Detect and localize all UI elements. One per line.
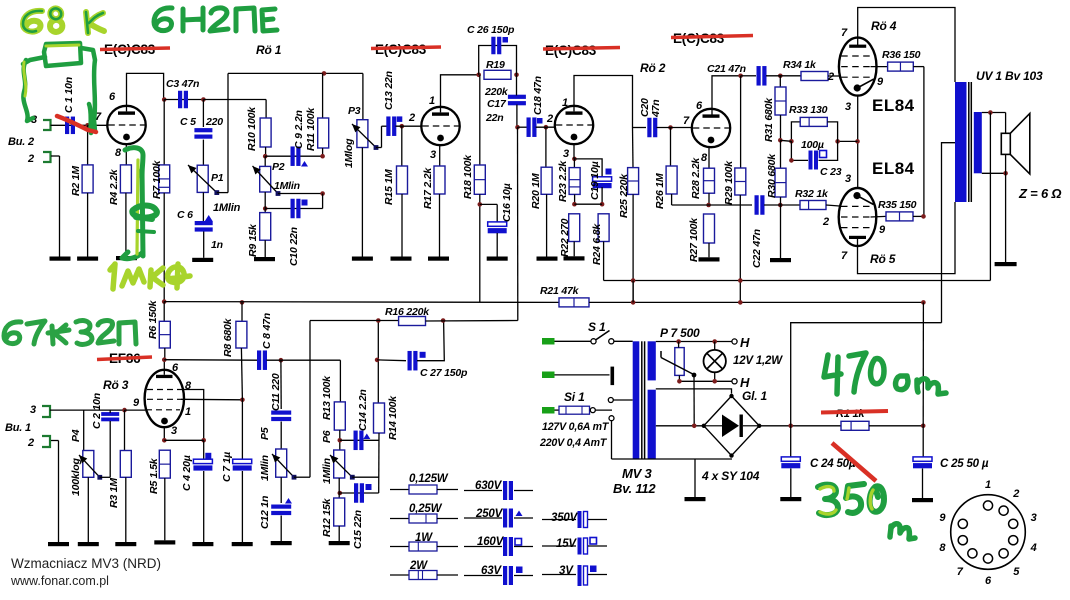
- legend 2W: [390, 560, 458, 580]
- capacitor C25: [913, 426, 989, 498]
- wire: [913, 215, 924, 217]
- resistor R7: [151, 100, 170, 302]
- svg-text:Wzmacniacz MV3 (NRD): Wzmacniacz MV3 (NRD): [11, 556, 161, 571]
- resistor R4: [108, 144, 131, 256]
- ground: [271, 541, 292, 545]
- wire: [869, 425, 923, 427]
- contact plate: [611, 367, 615, 386]
- resistor R30: [766, 140, 786, 258]
- transformer MV3 primary: [633, 341, 640, 459]
- wire transformer bottom: [612, 458, 733, 460]
- wiper P5: [272, 454, 294, 477]
- svg-text:2: 2: [1012, 488, 1019, 500]
- svg-text:2: 2: [27, 153, 34, 165]
- potentiometer P1: [197, 140, 224, 193]
- resistor R25: [618, 128, 639, 303]
- fuse Si1: [559, 390, 590, 414]
- wire AC2: [656, 425, 704, 427]
- wire heater top: [656, 341, 733, 343]
- potentiometer P4: [70, 410, 94, 542]
- svg-text:R9 15k: R9 15k: [247, 223, 259, 257]
- svg-text:C 5: C 5: [180, 116, 196, 128]
- legend 0.25W: [390, 503, 458, 523]
- svg-text:Rö 5: Rö 5: [870, 252, 896, 266]
- wire: [426, 320, 518, 323]
- resistor R36: [882, 49, 921, 71]
- svg-text:R2 1M: R2 1M: [70, 166, 82, 196]
- capacitor C11: [270, 360, 291, 449]
- wire anode V3: [858, 8, 955, 83]
- wire anode V1a: [127, 73, 164, 111]
- svg-text:R22 270: R22 270: [559, 218, 571, 257]
- svg-text:R14 100k: R14 100k: [387, 395, 399, 440]
- svg-text:R18 100k: R18 100k: [462, 154, 474, 199]
- svg-text:C16 10µ: C16 10µ: [501, 183, 513, 222]
- svg-text:R35 150: R35 150: [878, 199, 917, 211]
- connector mains c: [542, 407, 555, 414]
- node: [789, 139, 794, 144]
- terminal H lower: [732, 379, 737, 384]
- capacitor C15: [352, 483, 372, 549]
- node: [514, 73, 519, 78]
- svg-text:R7 100k: R7 100k: [151, 159, 163, 199]
- node: [835, 139, 840, 144]
- svg-text:R32 1k: R32 1k: [795, 188, 829, 200]
- svg-text:Bu. 2: Bu. 2: [8, 136, 34, 148]
- svg-text:Z = 6 Ω: Z = 6 Ω: [1018, 186, 1061, 201]
- node supply: [162, 299, 167, 304]
- svg-text:47n: 47n: [650, 100, 662, 119]
- svg-text:R21 47k: R21 47k: [540, 285, 580, 297]
- ground: [699, 257, 720, 261]
- ground: [77, 257, 98, 261]
- ground: [487, 257, 508, 261]
- node: [476, 73, 481, 78]
- svg-text:R25 220k: R25 220k: [618, 173, 630, 218]
- svg-text:22n: 22n: [485, 112, 504, 124]
- svg-text:3: 3: [845, 173, 851, 185]
- wire: [741, 75, 756, 77]
- svg-text:R19: R19: [486, 59, 505, 71]
- capacitor C24: [781, 426, 856, 497]
- resistor R31: [763, 76, 786, 142]
- svg-text:1: 1: [185, 406, 191, 418]
- legend 0.125W: [390, 473, 458, 494]
- potentiometer P5: [259, 449, 287, 481]
- svg-text:3: 3: [563, 148, 569, 160]
- wire: [1005, 154, 1007, 262]
- svg-text:3V: 3V: [559, 565, 574, 577]
- capacitor C16: [480, 183, 513, 256]
- resistor R16: [385, 306, 430, 326]
- wire input: [50, 409, 125, 411]
- svg-text:2: 2: [822, 216, 829, 228]
- node: [692, 424, 697, 429]
- wire anode V2a: [574, 76, 633, 128]
- ground: [48, 542, 69, 546]
- wire: [267, 359, 341, 361]
- svg-text:C10 22n: C10 22n: [288, 227, 300, 266]
- svg-text:Rö 1: Rö 1: [256, 43, 282, 57]
- svg-text:C21 47n: C21 47n: [707, 63, 746, 75]
- ground: [428, 257, 449, 261]
- tube V1a Roe1: [107, 106, 145, 144]
- resistor R27: [688, 214, 715, 262]
- connector mains b: [542, 372, 555, 379]
- annotation 67k32P: [4, 321, 136, 345]
- speaker: [1001, 133, 1010, 154]
- transformer UV1 secondary: [974, 112, 982, 173]
- node: [338, 491, 343, 496]
- wire cathode V5: [163, 427, 165, 440]
- wire: [51, 440, 59, 442]
- resistor R24: [591, 214, 609, 281]
- wire: [417, 321, 444, 361]
- wire: [555, 340, 593, 342]
- wire: [693, 375, 695, 426]
- svg-text:1Mlin: 1Mlin: [213, 202, 241, 214]
- wire R16 bus: [310, 320, 399, 322]
- resistor R18: [462, 75, 485, 303]
- wire: [264, 192, 266, 213]
- svg-text:C12 1n: C12 1n: [259, 496, 271, 529]
- wire: [766, 75, 801, 77]
- svg-text:0,25W: 0,25W: [409, 503, 443, 515]
- svg-text:4: 4: [1030, 542, 1037, 554]
- node: [706, 203, 711, 208]
- resistor R22: [559, 214, 580, 257]
- resistor R21: [540, 285, 589, 307]
- svg-text:R4 2.2k: R4 2.2k: [108, 168, 120, 205]
- svg-text:350V: 350V: [551, 512, 579, 524]
- wire: [377, 359, 406, 362]
- tube V5 Roe3 EF86: [145, 370, 184, 427]
- terminal H upper: [732, 339, 737, 344]
- resistor R9: [247, 213, 271, 257]
- ground: [770, 258, 791, 262]
- resistor R11: [305, 73, 329, 158]
- resistor R1 struck: [821, 408, 888, 430]
- capacitor C14: [354, 389, 371, 450]
- potentiometer P2: [260, 156, 300, 192]
- wire screen V3: [871, 66, 888, 68]
- wire anode V4: [858, 202, 956, 274]
- legend 250V: [464, 508, 533, 528]
- capacitor C10: [288, 199, 308, 266]
- svg-text:1: 1: [985, 479, 991, 491]
- tube V3 Roe4 EL84: [839, 38, 877, 96]
- wire: [51, 155, 60, 157]
- svg-text:C13 22n: C13 22n: [383, 71, 395, 110]
- svg-text:C 27 150p: C 27 150p: [420, 367, 468, 379]
- svg-text:C 1 10n: C 1 10n: [63, 77, 75, 113]
- capacitor C20: [639, 98, 662, 137]
- wire: [838, 140, 858, 142]
- transformer core: [641, 341, 643, 459]
- svg-text:R17 2.2k: R17 2.2k: [422, 167, 434, 209]
- legend 1W: [390, 532, 458, 551]
- legend 350V: [542, 511, 607, 528]
- resistor R10: [246, 106, 271, 156]
- ground: [780, 497, 801, 501]
- potentiometer P7: [660, 326, 700, 381]
- node: [572, 202, 577, 207]
- wire B+ out: [759, 425, 841, 427]
- wire secondary top: [982, 112, 1006, 114]
- node: [631, 278, 636, 283]
- legend 63V: [464, 565, 533, 585]
- svg-text:3: 3: [845, 101, 851, 113]
- svg-text:C14 2.2n: C14 2.2n: [357, 389, 369, 431]
- wire B+ to primary: [942, 143, 956, 323]
- node: [738, 74, 743, 79]
- legend 630V: [464, 480, 533, 500]
- node: [441, 318, 446, 323]
- wire: [589, 301, 923, 303]
- wire heater bottom: [679, 380, 732, 382]
- resistor R5: [148, 450, 170, 540]
- wire B+ bus: [164, 301, 559, 304]
- connector Bu.2 pin 3: [31, 114, 51, 130]
- node: [322, 71, 327, 76]
- node: [320, 191, 325, 196]
- capacitor C9: [291, 110, 309, 166]
- wire cathode V3: [857, 96, 859, 188]
- wire: [536, 126, 556, 128]
- wire secondary bottom: [982, 172, 1006, 174]
- svg-text:R28 2.2k: R28 2.2k: [690, 157, 702, 199]
- svg-text:C 25 50 µ: C 25 50 µ: [940, 458, 989, 470]
- capacitor C27: [408, 351, 469, 379]
- potentiometer P6: [321, 450, 345, 484]
- node: [778, 74, 783, 79]
- wiper P2: [253, 166, 279, 194]
- wire: [516, 75, 518, 96]
- transformer MV3 sec HV: [648, 390, 656, 459]
- svg-text:R5 1.5k: R5 1.5k: [148, 457, 160, 494]
- node: [240, 300, 245, 305]
- wire: [632, 281, 634, 303]
- svg-text:R8 680k: R8 680k: [222, 317, 234, 357]
- resistor R28: [690, 147, 715, 205]
- svg-text:UV 1 Bv 103: UV 1 Bv 103: [976, 69, 1043, 83]
- node: [921, 424, 926, 429]
- selector contact upper: [608, 398, 613, 403]
- tube V2b Roe2: [692, 109, 730, 147]
- svg-text:2: 2: [546, 113, 553, 125]
- resistor R8: [222, 302, 247, 399]
- wire: [694, 459, 696, 497]
- wire B+ riser: [791, 323, 942, 426]
- annotation 6N2PE: [154, 8, 277, 31]
- node: [668, 125, 673, 130]
- ground: [329, 541, 350, 545]
- svg-text:3: 3: [30, 404, 36, 416]
- ground: [564, 256, 585, 260]
- svg-text:3: 3: [1031, 512, 1037, 524]
- wire: [518, 126, 528, 128]
- wiper P3: [352, 124, 376, 148]
- svg-text:220: 220: [205, 116, 223, 128]
- resistor R12: [321, 478, 345, 541]
- resistor R3: [108, 410, 131, 542]
- connector Bu.2 pin 2: [27, 152, 51, 165]
- capacitor C3: [166, 78, 199, 108]
- annotation 470om: [824, 353, 946, 394]
- selector contact lower: [609, 416, 614, 421]
- node: [263, 206, 268, 211]
- capacitor C6: [177, 192, 223, 251]
- wire supply rail: [228, 72, 363, 74]
- switch S1: [588, 320, 614, 344]
- wiper P7: [660, 351, 662, 358]
- node: [572, 157, 577, 162]
- wire g3 V5: [181, 398, 242, 401]
- capacitor C26: [467, 24, 517, 75]
- svg-text:C15 22n: C15 22n: [352, 510, 364, 549]
- capacitor C23 100u: [791, 139, 841, 178]
- capacitor C18: [527, 76, 545, 137]
- svg-text:Rö 4: Rö 4: [871, 19, 897, 33]
- svg-text:R31 680k: R31 680k: [763, 97, 775, 142]
- svg-text:2: 2: [27, 437, 34, 449]
- svg-text:R16 220k: R16 220k: [385, 306, 430, 318]
- svg-text:R6 150k: R6 150k: [147, 299, 159, 339]
- capacitor C19: [574, 159, 611, 204]
- potentiometer P3: [343, 73, 368, 256]
- wiper P6: [330, 455, 352, 477]
- connector Bu.1 pin 2: [27, 436, 50, 449]
- svg-text:127V 0,6A mT: 127V 0,6A mT: [542, 421, 610, 433]
- ground: [537, 257, 558, 261]
- svg-text:MV 3: MV 3: [622, 466, 653, 481]
- resistor R20: [530, 127, 552, 256]
- wire anode V1b: [441, 75, 479, 113]
- svg-text:1Mlin: 1Mlin: [321, 458, 333, 484]
- ground: [154, 540, 175, 544]
- wire feedback: [989, 113, 991, 281]
- svg-text:C22 47n: C22 47n: [751, 229, 763, 268]
- node: [855, 139, 860, 144]
- svg-text:C 9 2.2n: C 9 2.2n: [293, 110, 305, 149]
- svg-text:Si 1: Si 1: [564, 390, 585, 404]
- wire: [828, 75, 840, 77]
- svg-text:C11 220: C11 220: [270, 373, 282, 411]
- tube V2a Roe2: [555, 106, 593, 144]
- capacitor C13: [382, 71, 403, 136]
- ground: [352, 257, 373, 261]
- node: [778, 138, 783, 143]
- node: [1003, 171, 1008, 176]
- wire anode V2b: [712, 76, 741, 115]
- transformer MV3 sec heater: [648, 341, 656, 380]
- resistor R29: [723, 76, 746, 303]
- svg-text:R3 1M: R3 1M: [108, 478, 120, 508]
- wire feedback bus: [604, 280, 991, 282]
- wire: [396, 125, 422, 127]
- wire: [780, 140, 791, 141]
- svg-text:P3: P3: [348, 105, 361, 117]
- annotation 350m: [818, 484, 884, 515]
- svg-text:P1: P1: [211, 172, 224, 184]
- svg-text:C 8 47n: C 8 47n: [261, 313, 273, 349]
- svg-text:C 4 20µ: C 4 20µ: [181, 455, 193, 491]
- svg-text:C 7 1µ: C 7 1µ: [221, 452, 233, 482]
- resistor R26: [666, 128, 677, 206]
- node: [778, 203, 783, 208]
- ground: [192, 258, 213, 262]
- resistor R15: [383, 126, 408, 256]
- svg-text:Rö 3: Rö 3: [103, 378, 129, 392]
- ground: [192, 542, 213, 546]
- connector Bu.1 pin 3: [30, 404, 50, 417]
- svg-text:3: 3: [171, 425, 177, 437]
- resistor R6: [147, 299, 170, 359]
- svg-text:C3 47n: C3 47n: [166, 78, 199, 90]
- svg-text:R23 2.2k: R23 2.2k: [557, 160, 569, 202]
- svg-text:P5: P5: [259, 427, 271, 440]
- svg-text:C 26 150p: C 26 150p: [467, 24, 515, 36]
- svg-text:C19 10µ: C19 10µ: [589, 161, 601, 200]
- capacitor C17: [485, 95, 526, 124]
- svg-text:C 6: C 6: [177, 209, 193, 221]
- svg-text:EL84: EL84: [872, 96, 915, 115]
- wire: [164, 99, 203, 101]
- wire grid: [125, 409, 146, 411]
- node: [788, 424, 793, 429]
- svg-text:P 7 500: P 7 500: [660, 326, 700, 340]
- wire: [203, 232, 205, 258]
- svg-text:R12 15k: R12 15k: [321, 497, 333, 537]
- wiper P1: [188, 165, 217, 193]
- resistor R19: [484, 59, 511, 98]
- ground: [391, 257, 412, 261]
- wire: [265, 155, 322, 157]
- wire: [164, 439, 203, 441]
- svg-text:R11 100k: R11 100k: [305, 106, 317, 151]
- node: [544, 125, 549, 130]
- svg-text:R27 100k: R27 100k: [688, 217, 700, 262]
- svg-text:0,125W: 0,125W: [409, 473, 449, 485]
- svg-text:R24 6.8k: R24 6.8k: [591, 223, 603, 265]
- svg-text:S 1: S 1: [588, 320, 606, 334]
- node: [515, 125, 520, 130]
- bridge rectifier Gl1: [702, 394, 762, 458]
- wire: [826, 205, 840, 206]
- ground: [232, 542, 253, 546]
- node: [338, 438, 343, 443]
- svg-text:15V: 15V: [556, 538, 577, 550]
- lamp: [704, 342, 726, 382]
- wire: [340, 492, 379, 494]
- svg-text:Rö 2: Rö 2: [640, 61, 666, 75]
- svg-text:100µ: 100µ: [801, 139, 824, 151]
- svg-text:H: H: [740, 375, 750, 390]
- svg-text:Bu. 1: Bu. 1: [5, 422, 31, 434]
- resistor R32: [795, 188, 829, 210]
- svg-text:C 23: C 23: [820, 166, 842, 178]
- svg-text:C18 47n: C18 47n: [532, 76, 544, 115]
- node: [162, 357, 167, 362]
- node: [921, 214, 926, 219]
- svg-text:1: 1: [562, 97, 568, 109]
- node: [122, 408, 127, 413]
- wire: [340, 439, 379, 441]
- svg-text:R29 100k: R29 100k: [723, 160, 735, 205]
- ground: [912, 498, 933, 502]
- svg-text:2: 2: [827, 71, 834, 83]
- capacitor C7: [221, 400, 252, 542]
